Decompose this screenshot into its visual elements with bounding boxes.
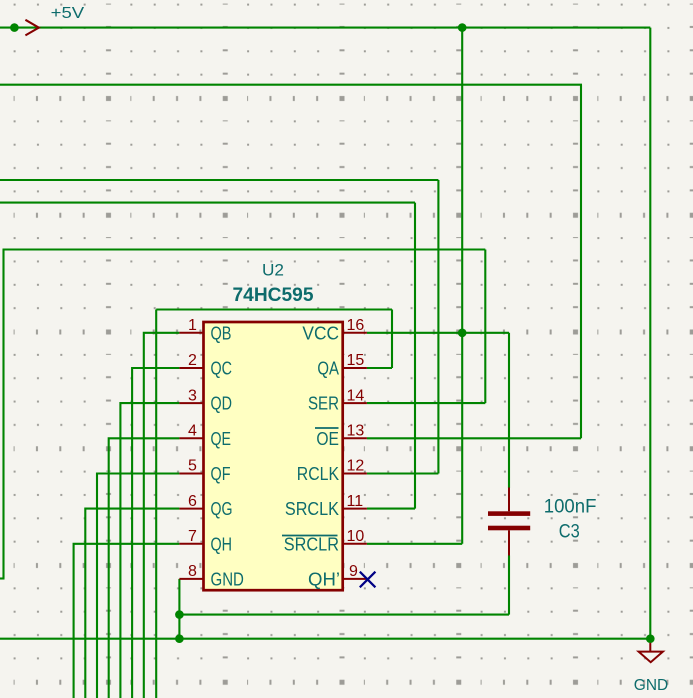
wire pin 1 bbox=[144, 333, 180, 698]
wire pin 8 drop bbox=[178, 579, 180, 639]
svg-text:GND: GND bbox=[634, 677, 668, 694]
svg-text:QA: QA bbox=[317, 359, 339, 379]
wire pin 6 bbox=[85, 509, 179, 698]
wire net SRCLK horizontal y203 bbox=[0, 202, 415, 204]
svg-text:SRCLR: SRCLR bbox=[284, 534, 339, 554]
pin 10 SRCLR (active low) bbox=[282, 528, 367, 554]
wire net SER horizontal y249 bbox=[3, 248, 486, 250]
wire pin 3 bbox=[120, 403, 179, 698]
wire +5V rail top bbox=[0, 27, 650, 29]
wire net RCLK horizontal y180 bbox=[0, 179, 438, 181]
junction pin8 y614 bbox=[175, 610, 184, 619]
wire cap bottom horizontal y614 bbox=[179, 614, 509, 616]
svg-text:5: 5 bbox=[188, 458, 197, 475]
pin 16 VCC bbox=[302, 317, 367, 343]
wire net RCLK to pin 12 bbox=[367, 472, 439, 474]
pin 14 SER bbox=[308, 387, 367, 413]
op-amp U1 body rectangle (IC U2 74HC595) bbox=[204, 322, 343, 590]
svg-text:QD: QD bbox=[211, 394, 233, 414]
wire net SER vertical x485 bbox=[484, 250, 486, 404]
svg-text:QC: QC bbox=[211, 359, 233, 379]
svg-text:74HC595: 74HC595 bbox=[233, 285, 314, 306]
svg-text:6: 6 bbox=[188, 493, 197, 510]
wire net QA vertical x392 bbox=[391, 310, 393, 369]
svg-text:3: 3 bbox=[188, 387, 197, 404]
svg-text:4: 4 bbox=[188, 423, 197, 440]
wire net QA to pin 15 bbox=[367, 367, 392, 369]
wire +5V to pin 10 bbox=[367, 543, 462, 545]
wire net RCLK vertical x438 bbox=[437, 180, 439, 474]
svg-text:C3: C3 bbox=[559, 522, 580, 543]
pin 15 QA bbox=[317, 352, 367, 378]
svg-text:GND: GND bbox=[211, 569, 244, 589]
wire right edge vertical bbox=[649, 28, 651, 639]
svg-text:RCLK: RCLK bbox=[297, 464, 339, 484]
junction at +5V symbol bbox=[10, 23, 19, 32]
junction +5V rail x462 bbox=[458, 23, 467, 32]
svg-text:100nF: 100nF bbox=[544, 496, 597, 517]
svg-text:13: 13 bbox=[347, 423, 365, 440]
junction pin8 GND rail bbox=[175, 634, 184, 643]
svg-text:1: 1 bbox=[188, 317, 197, 334]
svg-text:QG: QG bbox=[211, 499, 233, 519]
svg-text:16: 16 bbox=[347, 317, 365, 334]
junction VCC x462 bbox=[458, 329, 467, 338]
capacitor C3 bbox=[488, 488, 530, 556]
svg-text:14: 14 bbox=[347, 387, 365, 404]
pin 2 QC bbox=[179, 352, 232, 378]
pin 5 QF bbox=[179, 458, 230, 484]
pin 3 QD bbox=[179, 387, 232, 413]
svg-text:9: 9 bbox=[349, 563, 358, 580]
wire cap riser top x509 bbox=[508, 333, 510, 488]
wire pin 4 bbox=[109, 438, 180, 698]
svg-text:+5V: +5V bbox=[51, 5, 85, 22]
svg-text:SER: SER bbox=[308, 394, 339, 414]
wire net SER left stub y578 bbox=[0, 577, 5, 579]
wire GND rail y638 bbox=[0, 638, 650, 640]
wire net OE to pin 13 bbox=[367, 437, 581, 439]
wire pin 5 bbox=[97, 474, 179, 698]
svg-text:QH’: QH’ bbox=[308, 569, 340, 589]
ground symbol bbox=[639, 643, 663, 662]
svg-text:VCC: VCC bbox=[302, 323, 339, 343]
wire net SRCLK vertical x415 bbox=[414, 203, 416, 509]
pin 13 OE (active low) bbox=[315, 423, 367, 449]
no-connect X on pin 9 bbox=[360, 572, 376, 588]
pin 8 GND bbox=[179, 563, 244, 589]
pin 4 QE bbox=[179, 423, 231, 449]
svg-text:2: 2 bbox=[188, 352, 197, 369]
wire pin 7 bbox=[74, 544, 180, 698]
wire net QA vertical x156 to bottom bbox=[155, 310, 157, 698]
pin 12 RCLK bbox=[297, 458, 367, 484]
wire net QA horizontal y309 bbox=[156, 308, 392, 310]
svg-text:7: 7 bbox=[188, 528, 197, 545]
svg-text:QB: QB bbox=[211, 323, 232, 343]
wire pin 2 bbox=[132, 368, 179, 698]
svg-text:QF: QF bbox=[211, 464, 231, 484]
svg-text:12: 12 bbox=[347, 458, 365, 475]
svg-text:QH: QH bbox=[211, 534, 233, 554]
pin 9 QH' bbox=[308, 563, 368, 589]
wire net OE horizontal y85 bbox=[0, 84, 582, 86]
svg-text:SRCLK: SRCLK bbox=[285, 499, 339, 519]
wire cap bottom x509 bbox=[508, 556, 510, 615]
svg-text:QE: QE bbox=[211, 429, 232, 449]
pin 6 QG bbox=[179, 493, 232, 519]
svg-text:8: 8 bbox=[188, 563, 197, 580]
pin 11 SRCLK bbox=[285, 493, 367, 519]
svg-text:10: 10 bbox=[347, 528, 365, 545]
wire net OE vertical x581 bbox=[580, 85, 582, 439]
wire VCC pin 16 to cap riser bbox=[367, 332, 509, 334]
wire net SER left vertical x3.5 bbox=[2, 250, 4, 579]
wire net SRCLK to pin 11 bbox=[367, 508, 415, 510]
pin 7 QH bbox=[179, 528, 232, 554]
pin 1 QB bbox=[179, 317, 231, 343]
power symbol +5V bbox=[25, 5, 85, 36]
svg-text:11: 11 bbox=[347, 493, 364, 510]
junction GND rail right bbox=[646, 634, 655, 643]
wire +5V vertical x462 bbox=[461, 28, 463, 544]
svg-text:OE: OE bbox=[316, 429, 339, 449]
wire net SER to pin 14 bbox=[367, 402, 485, 404]
svg-text:U2: U2 bbox=[262, 261, 284, 280]
svg-text:15: 15 bbox=[347, 352, 365, 369]
